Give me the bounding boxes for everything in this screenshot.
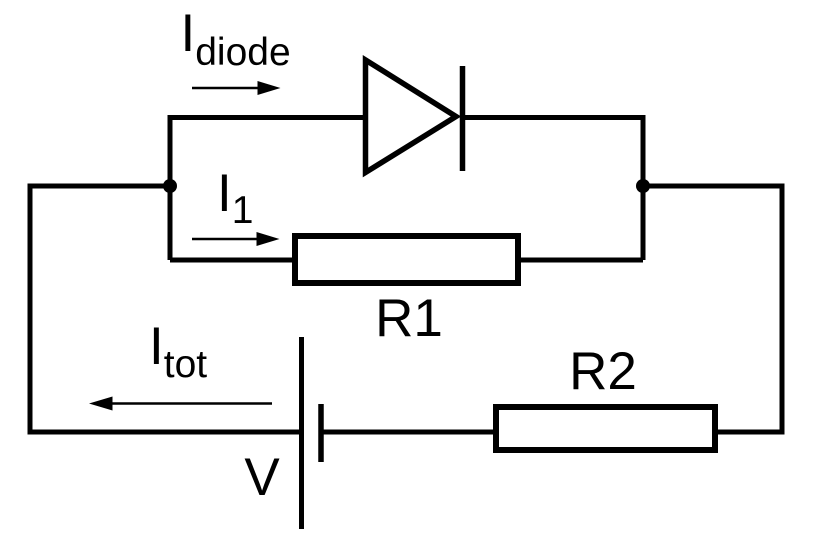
wire from left rail to node A — [30, 184, 170, 189]
resistor R1 box — [295, 236, 518, 283]
diode D1 cathode bar — [460, 66, 466, 171]
wire left rail vertical — [28, 184, 33, 435]
wire from R2 to right rail and up to node B — [643, 186, 782, 432]
battery V short plate — [318, 404, 324, 462]
wire left vertical of parallel loop — [168, 115, 173, 260]
wire R1 right lead — [521, 258, 643, 263]
resistor R2 box — [496, 407, 715, 450]
node B junction dot — [636, 179, 650, 193]
svg-text:R2: R2 — [569, 342, 637, 401]
node A junction dot — [163, 179, 177, 193]
wire right vertical of parallel loop — [641, 115, 646, 260]
arrow I_diode — [192, 87, 260, 90]
arrow I_1 — [192, 238, 259, 241]
wire R1 left lead — [170, 258, 292, 263]
battery V long plate — [299, 337, 304, 529]
arrow I_tot — [110, 402, 272, 405]
diode D1 triangle — [366, 60, 457, 173]
svg-text:R1: R1 — [375, 289, 443, 348]
wire bottom from left rail to battery — [28, 430, 300, 435]
wire from battery to R2 — [321, 430, 493, 435]
wire top-right from diode bar to corner — [462, 115, 646, 120]
wire top-left horizontal to diode — [168, 115, 364, 120]
svg-text:V: V — [244, 448, 280, 507]
